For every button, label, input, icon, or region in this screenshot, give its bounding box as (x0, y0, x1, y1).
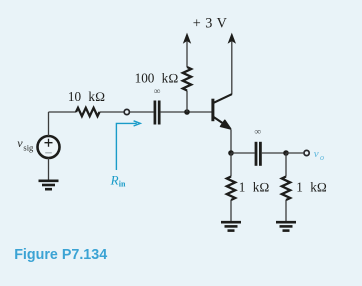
supply arrow right (+3V) (228, 34, 235, 44)
wire output node down to RL (285, 153, 287, 177)
node base junction (184, 109, 190, 115)
svg-text:∞: ∞ (154, 87, 161, 97)
svg-text:Figure P7.134: Figure P7.134 (14, 247, 107, 263)
wire capacitor C1 to base (161, 111, 212, 113)
ground right (276, 222, 296, 230)
transistor Q1 emitter with arrow (214, 117, 231, 129)
svg-text:1 kΩ: 1 kΩ (239, 179, 270, 194)
svg-text:1 kΩ: 1 kΩ (296, 179, 327, 194)
wire resistor to input terminal (100, 111, 124, 113)
capacitor C2 (infinite coupling cap) (256, 142, 260, 166)
wire RB top to supply arrow (186, 41, 188, 67)
wire emitter down to emitter node (230, 130, 232, 154)
svg-text:100 kΩ: 100 kΩ (135, 71, 179, 86)
svg-text:v: v (17, 136, 23, 150)
svg-text:sig: sig (23, 142, 34, 152)
voltage source vsig (38, 136, 60, 158)
supply arrow left (+3V) (183, 34, 190, 44)
svg-text:in: in (119, 180, 126, 189)
svg-text:+ 3 V: + 3 V (193, 16, 228, 32)
transistor Q1 base bar (211, 99, 214, 122)
label Rin (110, 172, 126, 188)
wire RE to ground (230, 200, 232, 221)
wire capacitor C2 to output node (262, 152, 286, 154)
wire output node to output terminal (286, 152, 303, 154)
wire base junction up to resistor RB (186, 91, 188, 113)
transistor Q1 collector (214, 94, 232, 103)
label vsig (17, 136, 34, 153)
capacitor C1 (infinite coupling cap) (155, 101, 159, 125)
resistor RB 100k (183, 67, 191, 91)
svg-text:∞: ∞ (254, 127, 261, 137)
node emitter junction (228, 150, 234, 156)
wire collector vertical to supply arrow (231, 41, 233, 95)
resistor RL 1k (282, 177, 290, 200)
label vo (314, 148, 324, 162)
ground source (39, 181, 59, 189)
wire source top to input row corner (48, 112, 50, 136)
svg-text:v: v (314, 148, 319, 160)
node output junction (283, 150, 289, 156)
wire RL to ground (285, 200, 287, 221)
svg-text:R: R (110, 172, 119, 187)
input terminal node (open circle) (124, 109, 129, 114)
Rin indicator arrow (116, 121, 140, 170)
output terminal (open circle) (304, 150, 309, 155)
wire terminal to capacitor C1 (130, 111, 154, 113)
svg-text:10 kΩ: 10 kΩ (68, 89, 105, 104)
wire source bottom to ground (48, 158, 50, 180)
resistor R 10k (76, 108, 100, 116)
wire input row left segment (49, 111, 77, 113)
resistor RE 1k (227, 177, 235, 200)
svg-text:o: o (320, 153, 324, 162)
ground left (221, 222, 241, 230)
wire emitter node to capacitor C2 (231, 152, 255, 154)
wire emitter node down to RE (230, 153, 232, 177)
